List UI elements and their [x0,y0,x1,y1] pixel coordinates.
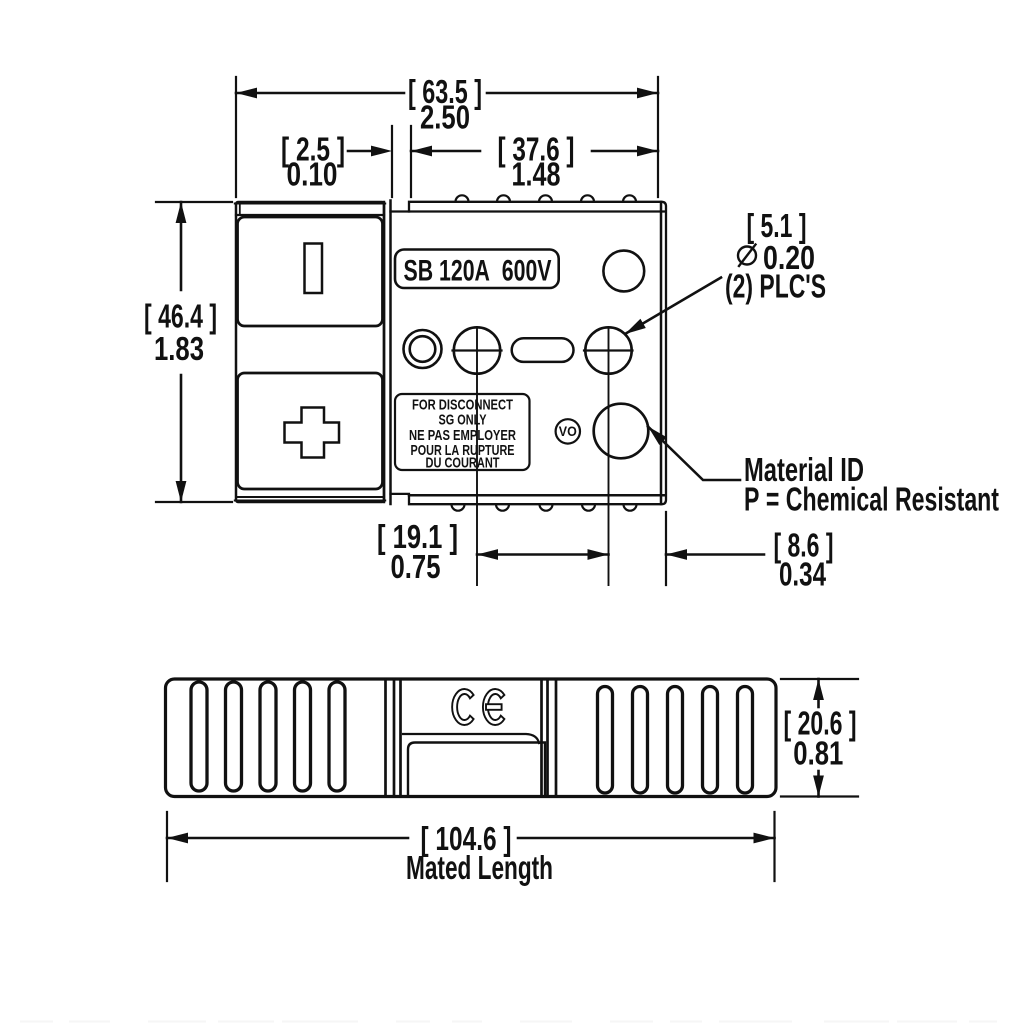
svg-text:1.83: 1.83 [154,330,204,367]
svg-text:0.81: 0.81 [793,735,843,772]
svg-text:2.50: 2.50 [420,99,470,136]
svg-text:SB 120A 600V: SB 120A 600V [404,255,552,288]
svg-text:(2) PLC'S: (2) PLC'S [725,268,826,305]
svg-text:1.48: 1.48 [512,156,561,193]
svg-text:Mated Length: Mated Length [406,849,553,886]
svg-text:DU COURANT: DU COURANT [426,455,500,472]
svg-text:VO: VO [559,424,577,439]
svg-text:P = Chemical Resistant: P = Chemical Resistant [744,481,999,518]
svg-text:[ 46.4 ]: [ 46.4 ] [144,298,217,335]
svg-text:0.34: 0.34 [779,556,826,593]
svg-text:0.75: 0.75 [391,548,441,585]
svg-text:0.10: 0.10 [287,156,338,193]
